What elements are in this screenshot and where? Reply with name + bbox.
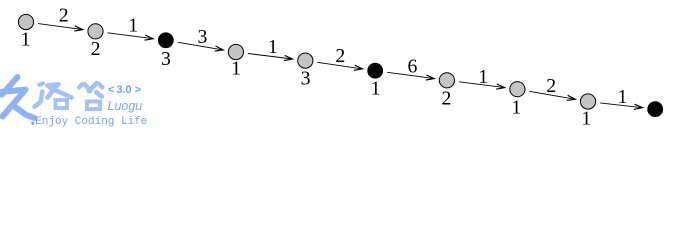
svg-text:1: 1 [511, 97, 521, 119]
arrowhead edge 5-6 [354, 65, 362, 70]
luogu watermark logo mark stroke D (right leg with foot) [13, 106, 34, 119]
node 9 (gray circle) [580, 94, 595, 109]
node 7 (gray circle) [439, 73, 454, 88]
luogu watermark logo mark stroke B (top bar) [0, 90, 26, 93]
luogu watermark hanzi Gu (谷) inner right-rising stroke [89, 83, 97, 91]
arrowhead edge 8-9 [567, 95, 576, 100]
luogu watermark hanzi Luo (洛) water radical rising dash [35, 103, 40, 107]
arrowhead edge 9-10 [634, 104, 642, 109]
node 10 (black circle) [647, 101, 663, 117]
arrowhead edge 1-2 [74, 26, 82, 31]
luogu watermark hanzi Luo (洛) right-falling stroke of 夂 [51, 88, 72, 98]
svg-text:2: 2 [335, 45, 345, 67]
svg-text:Enjoy Coding Life: Enjoy Coding Life [35, 116, 147, 128]
svg-text:3: 3 [198, 26, 208, 48]
wire edge 9-10 [600, 103, 642, 108]
svg-text:1: 1 [231, 58, 241, 80]
luogu watermark hanzi Luo (洛) water radical middle stroke [41, 92, 43, 102]
svg-text:1: 1 [128, 14, 138, 36]
svg-text:2: 2 [59, 5, 69, 27]
luogu watermark hanzi Gu (谷) top-right dash [99, 84, 103, 88]
luogu watermark hanzi Gu (谷) mouth box 口 [87, 102, 100, 110]
node 3 (black circle) [158, 32, 174, 48]
luogu watermark logo mark stroke C (left-falling diagonal) [3, 90, 26, 117]
arrowhead edge 4-5 [284, 55, 292, 60]
node 4 (gray circle) [228, 44, 243, 59]
svg-text:<3.0>: <3.0> [108, 84, 141, 96]
arrowhead edge 2-3 [145, 35, 153, 40]
luogu watermark hanzi Luo (洛) left-falling stroke of 夂 [48, 85, 58, 98]
wire edge 6-7 [387, 72, 434, 78]
svg-text:1: 1 [617, 86, 627, 108]
wire edge 5-6 [317, 62, 362, 69]
luogu watermark hanzi Gu (谷) inner left-falling stroke [85, 84, 91, 91]
luogu watermark hanzi Luo (洛) mouth box 口 [56, 100, 68, 108]
svg-text:2: 2 [442, 87, 452, 109]
wire edge 4-5 [248, 54, 293, 60]
luogu watermark logo mark stroke A (upper diagonal) [2, 77, 18, 95]
node 1 (gray circle) [18, 14, 33, 29]
luogu watermark hanzi Gu (谷) top-left dash [79, 84, 82, 87]
wire edge 2-3 [108, 33, 153, 39]
arrowhead edge 6-7 [426, 75, 434, 80]
arrowhead edge 7-8 [496, 84, 504, 89]
svg-text:3: 3 [301, 67, 311, 89]
svg-text:1: 1 [268, 36, 278, 58]
svg-text:1: 1 [478, 66, 488, 88]
arrowhead edge 3-4 [215, 46, 224, 51]
svg-text:1: 1 [371, 77, 381, 99]
svg-text:6: 6 [408, 56, 418, 78]
node 2 (gray circle) [88, 24, 103, 39]
svg-text:2: 2 [546, 75, 556, 97]
wire edge 8-9 [529, 91, 575, 99]
svg-text:3: 3 [161, 48, 171, 70]
svg-text:1: 1 [581, 108, 591, 129]
luogu watermark hanzi Luo (洛) top bar of 夂 [48, 84, 59, 85]
wire edge 7-8 [459, 82, 505, 88]
wire edge 3-4 [178, 42, 223, 50]
wire edge 1-2 [38, 24, 83, 30]
node 8 (gray circle) [510, 82, 525, 97]
svg-text:2: 2 [91, 38, 101, 60]
luogu watermark hanzi Luo (洛) water radical top dash [39, 83, 43, 84]
node 6 (black circle) [367, 63, 383, 79]
luogu watermark hanzi Gu (谷) lower-right falling stroke [96, 92, 102, 96]
luogu watermark leading dot [31, 122, 34, 125]
svg-text:1: 1 [21, 29, 31, 51]
node 5 (gray circle) [298, 53, 313, 68]
svg-text:Luogu: Luogu [108, 99, 143, 113]
